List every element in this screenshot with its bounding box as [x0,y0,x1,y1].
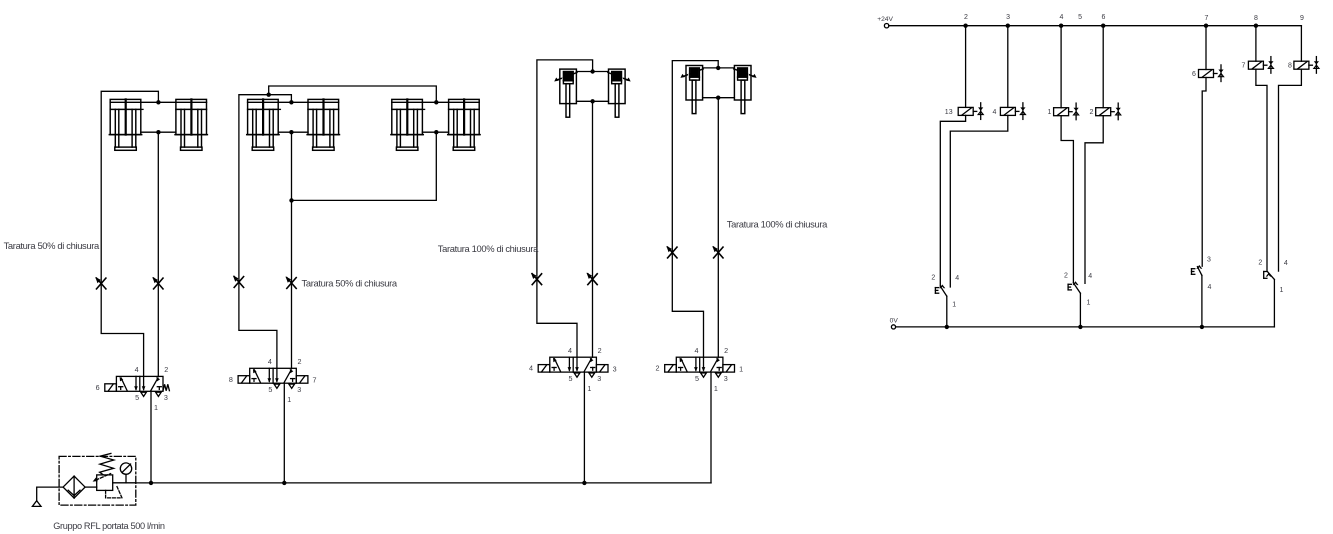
wire rail to coil Y2 [1102,26,1104,108]
node rod 1 [156,130,160,134]
restrictor X circuit1 right [152,277,163,289]
node rod 4 [590,99,594,103]
svg-text:3: 3 [1006,14,1010,21]
svg-text:Gruppo RFL portata 500 l/min: Gruppo RFL portata 500 l/min [53,521,165,531]
node cap 5 [716,66,720,70]
svg-text:+24V: +24V [877,16,893,23]
node rod 5 [716,96,720,100]
node rail col 4 [1059,24,1063,28]
svg-text:3: 3 [597,374,601,383]
coil Y2 label [1090,109,1094,116]
svg-text:3: 3 [164,393,168,402]
valve V3 exhaust 5 [574,373,580,377]
node S1 to 0V [945,325,949,329]
coil Y1 X mark [1074,103,1079,120]
wire coil Y7 to switch [1256,69,1267,271]
solenoid coil Y4 [1000,107,1019,115]
svg-text:2: 2 [931,275,935,282]
svg-text:Taratura 50% di chiusura: Taratura 50% di chiusura [4,240,100,251]
wire coil Y8 to switch [1279,69,1302,271]
svg-text:2: 2 [964,14,968,21]
wire cap line 2 [278,101,308,103]
svg-text:Taratura 100% di chiusura: Taratura 100% di chiusura [727,219,828,230]
svg-text:2: 2 [164,365,168,374]
svg-text:7: 7 [313,375,317,384]
wire rail to coil Y7 [1255,26,1257,62]
node supply V1 [149,481,153,485]
restrictor X circuit4 right [712,246,723,258]
wire V4 port4 riser [672,61,718,358]
svg-text:6: 6 [96,383,100,392]
valve V2 5/2 body [250,368,297,383]
valve V3 5/2 body [550,357,597,372]
label Taratura 50% circuit1 [4,240,100,251]
node S2 to 0V [1078,325,1082,329]
solenoid coil Y13 [958,107,977,115]
svg-text:4: 4 [1088,273,1092,280]
svg-text:1: 1 [1087,299,1091,306]
coil Y7 X mark [1268,57,1273,74]
node rail col 8 [1254,24,1258,28]
svg-text:4: 4 [993,109,997,116]
cylinder 3b [448,99,480,150]
svg-text:1: 1 [154,403,158,412]
svg-text:5: 5 [268,385,272,394]
wire rail to coil Y13 [965,26,967,108]
valve V1 exhaust 3 [156,392,162,396]
wire cap line 3 [422,101,448,103]
wire cap line 5 [703,67,735,69]
coil Y13 label [945,109,953,116]
wire rail to coil Y4 [1007,26,1009,108]
label 0V [890,318,899,325]
coil Y13 X mark [978,103,983,120]
svg-text:7: 7 [1242,63,1246,70]
svg-text:4: 4 [529,364,533,373]
wire rail to coil Y6 [1205,26,1207,70]
svg-text:3: 3 [297,385,301,394]
coil Y4 X mark [1020,103,1025,120]
node supply V3 [582,481,586,485]
+24V rail [884,24,1301,28]
valve V3 exhaust 3 [589,373,595,377]
svg-text:4: 4 [1059,14,1063,21]
valve V3 right solenoid [596,365,608,373]
wire coil Y13 to switch [940,115,965,286]
valve V2 exhaust 3 [289,384,295,388]
svg-text:4: 4 [135,365,139,374]
restrictor X circuit4 left [666,246,677,258]
restrictor X circuit2 left [233,275,244,287]
svg-text:3: 3 [613,364,617,373]
valve V2 right solenoid [296,376,308,384]
node circuit2 branch [267,93,271,97]
wire coil Y4 to switch [950,115,1008,287]
wire filter to regulator [85,486,97,488]
0V rail [891,325,1274,329]
wire V3 port4 riser [537,60,593,357]
switch S3 normally-open [1192,265,1203,327]
svg-text:5: 5 [695,374,699,383]
valve V2 exhaust 5 [274,384,280,388]
wire rail to coil Y8 [1300,26,1302,62]
svg-text:4: 4 [695,346,699,355]
label +24V [877,16,893,23]
wire cap line 4 [576,71,608,73]
limit switch S1 changeover [935,285,946,327]
valve V4 right solenoid [723,365,735,373]
wire supply bus [113,482,711,484]
svg-text:5: 5 [569,374,573,383]
wire V1 port1 drop [150,391,152,483]
column number labels [964,14,1304,22]
svg-text:2: 2 [1258,259,1262,266]
filter separator F [63,476,85,498]
cylinder 1b [175,99,207,150]
wire top bus to second pair cap [269,86,437,102]
switch S2 labels [1064,272,1092,306]
svg-text:1: 1 [1280,287,1284,294]
solenoid coil Y6 [1199,70,1218,78]
label Taratura 100% circuit3 [438,243,539,254]
node S3 to 0V [1200,325,1204,329]
coil Y8 X mark [1314,57,1319,74]
svg-text:0V: 0V [890,318,899,325]
svg-text:4: 4 [955,275,959,282]
valve V4 5/2 body [676,357,723,372]
wire V2 port4 riser [239,95,292,369]
svg-text:3: 3 [1207,257,1211,264]
node lower bus left [289,198,293,202]
cylinder 5a [680,66,703,114]
coil Y6 X mark [1218,65,1223,82]
restrictor X circuit1 left [95,277,106,289]
svg-text:8: 8 [1288,63,1292,70]
switch S3 labels [1207,257,1212,292]
node cap 1 [156,100,160,104]
wire V4 port1 drop [710,372,712,483]
coil Y7 label [1242,63,1246,70]
wire V1 port2 to cylinder 1 rod [157,132,159,376]
restrictor X circuit3 right [587,273,598,285]
pressure regulator R [93,453,122,498]
valve V2 port labels [229,357,317,404]
limit switch S2 changeover [1068,281,1080,327]
svg-text:1: 1 [587,384,591,393]
svg-text:4: 4 [568,346,572,355]
valve V1 return spring [163,384,169,390]
coil Y2 X mark [1116,103,1121,120]
wire V1 port4 to cylinder 1 cap [101,91,158,376]
wire rail to coil Y1 [1060,26,1062,108]
svg-text:2: 2 [656,364,660,373]
solenoid coil Y7 [1248,61,1267,69]
node cap 4 [590,69,594,73]
label Gruppo RFL [53,521,165,531]
node rail col 6 [1101,24,1105,28]
svg-text:13: 13 [945,109,953,116]
svg-text:1: 1 [1048,109,1052,116]
pressure gauge [120,463,131,483]
valve V4 left solenoid [665,365,677,373]
svg-text:3: 3 [724,374,728,383]
svg-text:1: 1 [287,395,291,404]
node cap 2 [289,100,293,104]
svg-text:4: 4 [268,357,272,366]
wire rod line 3 [422,131,448,133]
valve V1 left solenoid [105,384,117,392]
svg-text:8: 8 [229,375,233,384]
valve V4 exhaust 5 [701,373,707,377]
wire rod line 4 [576,100,608,102]
svg-text:2: 2 [598,346,602,355]
node rod 2 [289,130,293,134]
wire V3 port2 riser [592,101,594,357]
valve V4 port labels [656,346,744,393]
svg-text:2: 2 [1090,109,1094,116]
label Taratura 50% circuit2 [302,278,398,289]
coil Y1 label [1048,109,1052,116]
wire rod line 1 [141,131,176,133]
node rail col 3 [1006,24,1010,28]
restrictor X circuit2 right [286,276,297,288]
solenoid coil Y2 [1096,108,1115,116]
wire lower bus to second pair rod [292,132,437,200]
valve V1 port labels [96,365,169,412]
node cap 3 [434,100,438,104]
wire coil Y2 to switch [1085,116,1103,284]
svg-text:5: 5 [1078,14,1082,21]
svg-text:6: 6 [1192,71,1196,78]
cylinder 4a [554,69,577,117]
cylinder 3a [391,99,425,150]
svg-text:1: 1 [952,301,956,308]
svg-text:2: 2 [724,346,728,355]
solenoid coil Y1 [1054,108,1073,116]
node rod 3 [434,130,438,134]
svg-text:5: 5 [135,393,139,402]
cylinder 2b [307,99,339,150]
restrictor X circuit3 left [531,273,542,285]
cylinder 5b [734,66,757,114]
wire rod line 5 [703,97,735,99]
wire coil Y6 to switch [1202,78,1206,267]
wire rod line 2 [278,131,308,133]
svg-text:4: 4 [1208,284,1212,291]
svg-text:9: 9 [1300,15,1304,22]
wire coil Y1 to switch [1061,116,1073,283]
limit switch S4 changeover [1264,271,1275,327]
svg-text:Taratura 50% di chiusura: Taratura 50% di chiusura [302,278,398,289]
svg-text:7: 7 [1205,15,1209,22]
svg-text:1: 1 [739,364,743,373]
svg-text:4: 4 [1284,260,1288,267]
valve V1 5/2 body [116,376,163,391]
valve V4 exhaust 3 [716,373,722,377]
wire V2 port2 riser [291,132,293,368]
valve V3 port labels [529,346,617,393]
wire V4 port2 riser [717,98,719,358]
svg-text:1: 1 [714,384,718,393]
svg-text:8: 8 [1254,15,1258,22]
cylinder 4b [608,69,631,117]
cylinder 1a [109,99,143,150]
valve V1 exhaust 5 [141,392,147,396]
air source inlet [32,487,63,506]
coil Y4 label [993,109,997,116]
coil Y6 label [1192,71,1196,78]
node supply V2 [282,481,286,485]
svg-text:Taratura 100% di chiusura: Taratura 100% di chiusura [438,243,539,254]
valve V2 left solenoid [238,376,250,384]
wire V2 port1 drop [283,383,285,483]
label Taratura 100% circuit4 [727,219,828,230]
RFL group frame [59,456,136,505]
wire V3 port1 drop [583,372,585,483]
node rail col 7 [1204,24,1208,28]
switch S4 labels [1258,259,1288,294]
valve V3 left solenoid [538,365,550,373]
node rail col 2 [963,24,967,28]
cylinder 2a [247,99,281,150]
solenoid coil Y8 [1294,61,1313,69]
wire regulator out [113,482,136,484]
svg-text:2: 2 [298,357,302,366]
svg-text:6: 6 [1102,14,1106,21]
coil Y8 label [1288,63,1292,70]
wire cap line 1 [141,101,176,103]
svg-text:2: 2 [1064,272,1068,279]
switch S1 labels [931,275,959,309]
